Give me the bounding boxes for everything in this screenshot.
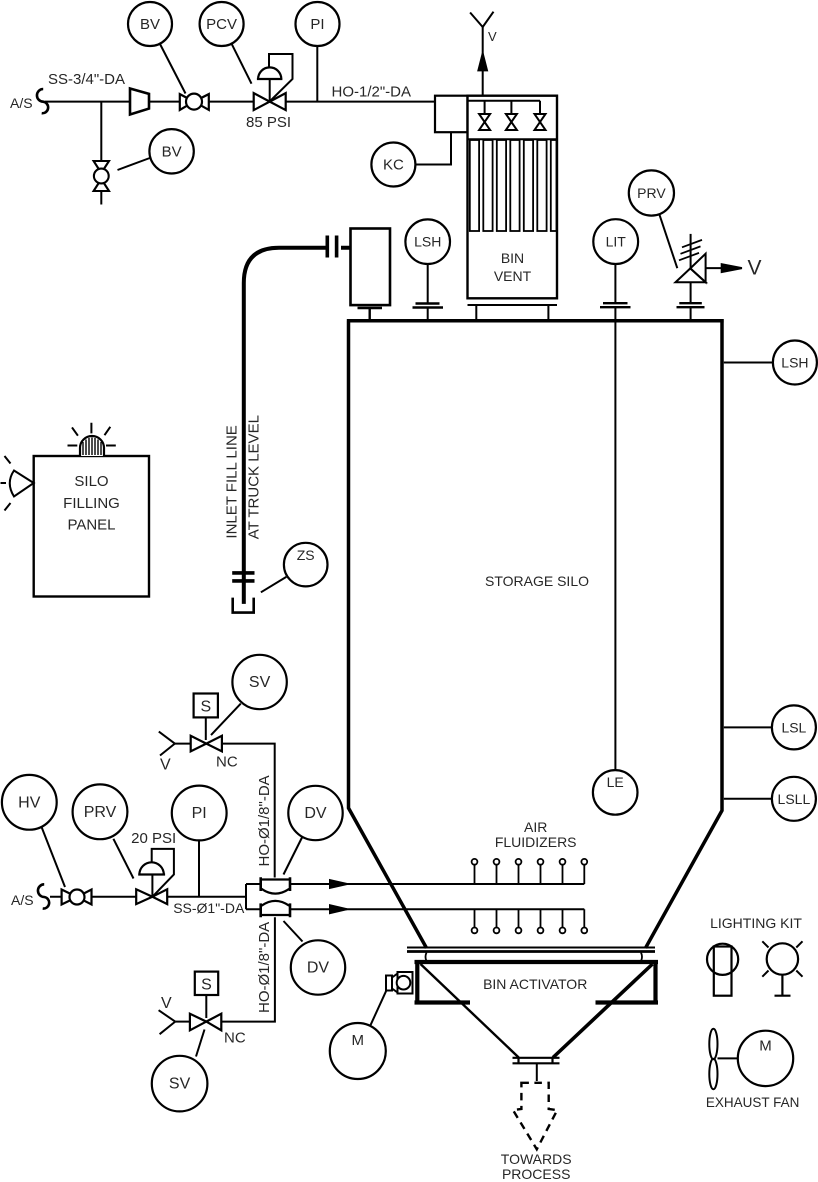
svg-text:M: M [352, 1032, 365, 1049]
balloon DV upper [284, 838, 303, 875]
lower solenoid valve body [190, 1014, 221, 1031]
svg-text:KC: KC [383, 157, 404, 174]
pulse manifold [468, 101, 541, 114]
svg-text:S: S [200, 699, 211, 716]
svg-text:DV: DV [307, 960, 330, 977]
control valve PCV body [254, 93, 286, 110]
vent symbol [159, 732, 175, 756]
bin vent housing [468, 96, 558, 299]
svg-text:SV: SV [249, 674, 271, 691]
LSH nozzle [427, 264, 429, 320]
svg-text:85 PSI: 85 PSI [246, 114, 291, 131]
bin vent header section line [468, 138, 558, 140]
balloon PRV (relief) [660, 215, 678, 268]
bin activator cone [421, 964, 519, 1058]
panel siren horn [10, 471, 34, 497]
balloon LSH (silo roof) [405, 219, 450, 264]
svg-text:HO-1/2"-DA: HO-1/2"-DA [332, 84, 412, 101]
LSH flange [413, 304, 444, 308]
silo filling panel box [34, 456, 149, 597]
wire KC to inlet box [416, 132, 451, 164]
inlet fill pipe [244, 248, 351, 604]
svg-text:V: V [748, 257, 762, 280]
svg-text:STORAGE SILO: STORAGE SILO [485, 573, 589, 589]
upper solenoid vent wire [175, 743, 191, 745]
upper flow arrow [330, 880, 347, 888]
upper aeration wire [290, 883, 584, 885]
pinch valve lower [261, 901, 290, 915]
balloon PCV [232, 44, 252, 84]
balloon PI (air header) [316, 46, 318, 102]
vent arrow [478, 54, 487, 71]
svg-text:TOWARDS: TOWARDS [501, 1151, 572, 1167]
svg-text:HO-Ø1/8"-DA: HO-Ø1/8"-DA [256, 775, 273, 866]
svg-text:BV: BV [162, 143, 182, 160]
svg-text:BIN: BIN [501, 250, 524, 266]
balloon BV (inline ball valve) [160, 44, 186, 94]
svg-text:BIN ACTIVATOR: BIN ACTIVATOR [483, 976, 587, 992]
reducer [130, 89, 149, 115]
lower aeration wire [290, 908, 584, 910]
svg-text:PRV: PRV [637, 185, 666, 201]
split tee to pinch valves [246, 884, 261, 909]
relief valve body [676, 268, 706, 282]
svg-text:SS-Ø1"-DA: SS-Ø1"-DA [173, 900, 245, 916]
lamp rays [762, 941, 802, 976]
upper solenoid valve S box [194, 694, 218, 718]
svg-text:LIT: LIT [606, 234, 627, 250]
svg-text:20 PSI: 20 PSI [131, 830, 176, 847]
svg-text:M: M [759, 1038, 772, 1055]
svg-text:PANEL: PANEL [67, 517, 115, 534]
inlet pipe coupling [327, 236, 336, 258]
svg-text:VENT: VENT [494, 268, 532, 284]
svg-text:SV: SV [169, 1076, 191, 1093]
svg-text:EXHAUST FAN: EXHAUST FAN [706, 1095, 800, 1110]
svg-text:PI: PI [310, 16, 324, 33]
svg-text:PRV: PRV [84, 804, 117, 821]
balloon SV upper [211, 704, 241, 736]
balloon DV lower [284, 921, 303, 942]
regulator dome [138, 862, 165, 874]
svg-text:AIR: AIR [524, 819, 547, 835]
svg-text:A/S: A/S [11, 892, 34, 908]
svg-text:HV: HV [18, 794, 41, 811]
svg-text:PROCESS: PROCESS [502, 1166, 570, 1182]
relief valve flange [677, 303, 705, 307]
filter cartridges [470, 140, 557, 231]
drain ball valve [94, 161, 109, 191]
LIT flange [600, 303, 631, 307]
regulator stem [151, 875, 153, 897]
balloon LSL [724, 726, 772, 728]
svg-text:NC: NC [224, 1030, 246, 1047]
lower solenoid stem [205, 995, 207, 1018]
bin vent inlet box [435, 96, 468, 133]
balloon BV (drain valve) [118, 158, 150, 170]
balloon LE [593, 770, 638, 815]
balloon PRV (regulator) [113, 839, 133, 879]
svg-text:FILLING: FILLING [63, 495, 120, 512]
upper solenoid valve body [191, 736, 222, 752]
wire pinch valve to lower solenoid [221, 917, 275, 1021]
lower flow arrow [330, 905, 347, 913]
svg-text:V: V [160, 757, 171, 774]
relief valve spring [679, 240, 702, 260]
lower solenoid valve S box [195, 972, 218, 995]
balloon LSLL [724, 798, 772, 800]
wire: SS-3/4 inch air header [45, 101, 435, 103]
PCV signal box [269, 54, 293, 101]
PCV diaphragm dome [257, 67, 283, 79]
balloon PI (supply) [198, 841, 200, 897]
svg-text:A/S: A/S [10, 95, 33, 111]
exhaust fan propeller [709, 1029, 717, 1059]
truck coupling bracket [233, 598, 254, 613]
PCV actuator stem [269, 79, 271, 102]
balloon M (exhaust fan) [738, 1031, 793, 1086]
pulse valve 1 [479, 114, 490, 130]
vent Y symbol [470, 12, 493, 27]
bin vent support [468, 305, 558, 320]
pressure relief valve [690, 234, 692, 269]
svg-text:ZS: ZS [297, 547, 315, 563]
flexible connection [407, 947, 655, 949]
vent symbol [159, 1010, 176, 1034]
balloon LSH (side) [724, 362, 773, 364]
supply header wire SS-O1"-DA [50, 896, 136, 898]
balloon HV [42, 827, 66, 887]
inlet line end flanges [232, 573, 254, 581]
panel beacon [80, 436, 104, 456]
storage silo shell [347, 321, 724, 948]
outlet stem [536, 1063, 538, 1081]
svg-text:HO-Ø1/8"-DA: HO-Ø1/8"-DA [256, 922, 273, 1013]
svg-text:SILO: SILO [74, 473, 108, 490]
svg-text:LIGHTING KIT: LIGHTING KIT [710, 915, 802, 931]
beacon rays [68, 423, 116, 446]
dashed outfeed arrow [513, 1083, 557, 1150]
LIT nozzle and probe wire [614, 264, 616, 770]
svg-text:LSH: LSH [781, 355, 808, 371]
svg-text:V: V [488, 29, 497, 44]
light fixture post [714, 947, 732, 996]
pulse valve 3 [535, 114, 546, 130]
wire solenoid to HO drop [222, 744, 275, 878]
svg-text:NC: NC [216, 754, 238, 771]
balloon ZS [261, 577, 286, 592]
outlet flange [513, 1058, 560, 1064]
upper solenoid stem [205, 717, 207, 740]
svg-text:BV: BV [140, 16, 160, 33]
svg-text:SS-3/4"-DA: SS-3/4"-DA [48, 71, 125, 88]
relief valve nozzle [690, 282, 692, 319]
svg-text:LSL: LSL [781, 719, 806, 735]
balloon M (vibrator) [371, 990, 387, 1025]
vent stack [482, 27, 484, 96]
fan shaft [718, 1057, 738, 1059]
balloon SV lower [196, 1030, 205, 1057]
balloon KC [371, 143, 415, 187]
air fluidizers lower row [472, 909, 588, 933]
svg-text:PI: PI [192, 805, 207, 822]
svg-text:LSLL: LSLL [778, 791, 811, 807]
lower solenoid vent wire [175, 1021, 190, 1023]
regulator signal box [152, 849, 174, 896]
fill receiver flange [358, 308, 383, 320]
fill receiver box [351, 229, 391, 306]
relief outlet wire and arrow [706, 267, 723, 269]
light fixture lamp [767, 943, 798, 974]
ball valve BV [180, 94, 209, 110]
pulse valve 2 [506, 114, 517, 130]
vibrator motor [386, 972, 413, 994]
svg-text:PCV: PCV [206, 16, 237, 33]
pipe break squiggle top [37, 89, 48, 113]
balloon LIT [593, 219, 638, 264]
wire: drain branch tee [100, 102, 102, 161]
svg-text:LSH: LSH [414, 234, 441, 250]
air fluidizers upper row [472, 859, 588, 884]
svg-text:LE: LE [607, 774, 624, 790]
svg-text:S: S [201, 977, 212, 994]
svg-text:AT TRUCK LEVEL: AT TRUCK LEVEL [246, 415, 263, 539]
siren rays [1, 456, 11, 511]
pressure regulator valve body [136, 889, 167, 904]
svg-text:V: V [161, 995, 172, 1012]
hand ball valve HV [62, 890, 92, 905]
svg-text:INLET FILL LINE: INLET FILL LINE [224, 425, 241, 538]
svg-text:DV: DV [304, 805, 327, 822]
bin activator frame [415, 962, 659, 1003]
pipe break squiggle bottom [38, 884, 49, 908]
svg-text:FLUIDIZERS: FLUIDIZERS [495, 834, 577, 850]
pinch valve upper [261, 880, 290, 894]
